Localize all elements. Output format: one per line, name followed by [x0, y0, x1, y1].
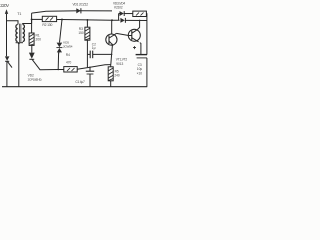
capacitor C3 — [136, 55, 147, 58]
wire bottom rail — [2, 86, 147, 88]
wire VT2 collector up — [137, 20, 139, 29]
capacitor C1 — [86, 67, 94, 86]
node emitter/C2 — [111, 54, 113, 56]
wire VT1 emitter down — [111, 45, 113, 64]
wire transformer bottom to rail — [18, 43, 20, 86]
junction dot transformer bottom — [18, 42, 20, 44]
wire input to primary — [7, 21, 19, 25]
wire lower top bus — [62, 19, 120, 22]
svg-text:150: 150 — [78, 31, 84, 35]
svg-text:240: 240 — [114, 73, 120, 77]
svg-text:2CP10(B-E): 2CP10(B-E) — [28, 78, 42, 82]
wire zener bottom — [57, 52, 59, 69]
wire node to R2 — [32, 18, 43, 20]
svg-text:2CW54: 2CW54 — [63, 44, 73, 48]
diode VD4 — [120, 18, 146, 23]
diode VD3 — [119, 11, 133, 16]
wire top rail — [32, 11, 112, 13]
wire R4 right to R5 — [77, 65, 111, 70]
svg-text:T1: T1 — [17, 12, 21, 16]
wire R2 right — [57, 19, 62, 21]
switch S (diode-like contact with blade) — [5, 56, 12, 86]
resistor R6 — [133, 11, 147, 16]
svg-text:R2 130: R2 130 — [42, 23, 52, 27]
svg-text:VT1,VT2: VT1,VT2 — [116, 57, 128, 61]
zener VD5 wire — [60, 20, 63, 43]
wire secondary riser — [31, 13, 33, 23]
transistor VT1 — [106, 20, 117, 45]
wire VD2 to lower bus — [32, 60, 58, 70]
svg-text:VD1 2CZ12: VD1 2CZ12 — [73, 3, 89, 7]
svg-text:9013: 9013 — [116, 62, 123, 66]
svg-text:200: 200 — [36, 37, 42, 41]
plus sign C3 — [133, 46, 136, 49]
wire secondary top jog — [23, 23, 32, 26]
node VT2 collector — [139, 20, 141, 22]
node zener top — [61, 19, 63, 21]
node secondary/R1/R2 — [31, 18, 33, 20]
svg-text:1μ: 1μ — [92, 46, 96, 50]
node C1 top — [89, 67, 91, 69]
resistor R1 — [29, 19, 34, 45]
svg-text:470: 470 — [66, 61, 72, 65]
svg-text:C1 4μ7: C1 4μ7 — [75, 80, 85, 84]
svg-text:K2102: K2102 — [114, 6, 123, 10]
node R3 top — [86, 19, 88, 21]
resistor R2 — [42, 16, 56, 21]
zener VD5 — [56, 43, 62, 54]
resistor R3 — [85, 20, 90, 68]
diode VD1 — [76, 8, 81, 13]
wire right rail lower — [146, 58, 148, 87]
stub to upper diode branch — [118, 14, 120, 21]
wire lower bus to R4 — [58, 69, 64, 71]
svg-text:×10: ×10 — [137, 71, 143, 75]
svg-text:R4: R4 — [66, 53, 70, 57]
wire VT2 emitter to C3 — [140, 43, 141, 55]
svg-text:220V: 220V — [0, 3, 9, 8]
resistor R5 — [108, 65, 113, 87]
wire right rail upper — [145, 14, 148, 55]
node top rail join — [111, 19, 113, 21]
transformer bottom bar — [16, 42, 23, 44]
capacitor C2 — [87, 51, 111, 59]
node zener bottom — [57, 69, 59, 71]
transformer T1 — [16, 24, 25, 42]
resistor R4 — [64, 67, 77, 72]
AC input arrow — [5, 9, 8, 56]
transistor VT2 — [128, 29, 140, 42]
diode VD2 — [29, 45, 35, 59]
wire VT1 collector to VT2 base — [116, 33, 128, 35]
